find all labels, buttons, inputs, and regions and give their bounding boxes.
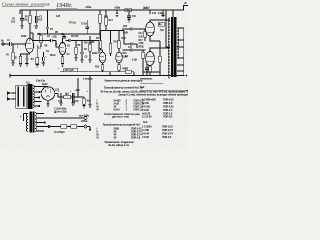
ground — [74, 58, 77, 61]
svg-text:7-8 23: 7-8 23 — [142, 108, 149, 112]
C7 label — [81, 24, 88, 26]
input label — [1, 41, 5, 43]
label Др1 — [143, 8, 148, 10]
svg-text:6Н9С: 6Н9С — [21, 36, 27, 38]
right table tail — [140, 78, 153, 81]
transformer Tr3 primary — [168, 18, 170, 78]
resistor R9 — [89, 36, 91, 44]
svg-text:7-8 30: 7-8 30 — [142, 135, 149, 139]
svg-text:ПЭЛ-0,31: ПЭЛ-0,31 — [163, 97, 174, 101]
filament label — [36, 81, 46, 83]
table heading — [105, 78, 143, 82]
wire C4 to V2 grid — [52, 41, 59, 48]
node +250 label — [85, 7, 92, 9]
wire primary top tap — [172, 10, 174, 17]
wire sec tap d — [36, 126, 58, 128]
V3 type label — [92, 53, 98, 55]
svg-text:Трансформатор выходной №3: Трансформатор выходной №3 — [103, 122, 141, 126]
splitter output labels — [123, 26, 128, 59]
svg-text:С6 0,05: С6 0,05 — [71, 36, 79, 38]
right table rows block2 — [142, 125, 173, 140]
table rows block1 — [97, 99, 145, 119]
resistor R15 — [101, 65, 104, 71]
wire V5 plate — [150, 20, 170, 22]
svg-text:С 20,0×450в: С 20,0×450в — [54, 107, 67, 110]
choke box Др2 — [158, 22, 164, 26]
resistor R13 — [118, 41, 121, 49]
ground — [80, 60, 83, 63]
ground bus — [10, 75, 183, 77]
svg-text:(зазор 0,1 мм), обмотки внавал: (зазор 0,1 мм), обмотки внавал, выводы г… — [119, 93, 189, 97]
table subheading2 — [103, 122, 141, 126]
svg-text:ПЭЛ-0,5: ПЭЛ-0,5 — [163, 115, 173, 119]
terminal — [84, 117, 87, 120]
capacitor C14 — [145, 64, 149, 76]
wire V6 cathode — [149, 65, 151, 68]
capacitor C9 — [20, 10, 24, 26]
node screen rail junction — [99, 33, 100, 34]
resistor R8 — [75, 41, 77, 48]
svg-text:5-6 191: 5-6 191 — [142, 104, 151, 108]
C1 label — [7, 40, 11, 42]
resistor R17 — [142, 50, 144, 52]
output label — [79, 115, 89, 123]
wire sec tap e — [36, 130, 44, 132]
resistor R20 — [71, 125, 77, 128]
mid misc labels — [38, 32, 92, 70]
power transformer label — [26, 83, 31, 85]
resistor R2 — [19, 56, 22, 63]
V1 type label — [21, 36, 27, 38]
ground — [42, 63, 45, 66]
mains plug — [11, 93, 16, 99]
svg-text:С7 8,0: С7 8,0 — [81, 24, 88, 26]
tube V2 — [59, 42, 66, 54]
svg-text:IV: IV — [97, 135, 100, 139]
transformer Tr3 core — [171, 17, 173, 77]
resistor R4 — [36, 45, 38, 57]
C3 plus label — [45, 57, 47, 59]
svg-text:к анодам: к анодам — [83, 78, 93, 80]
choke Др3 — [64, 95, 71, 98]
anode label — [83, 78, 93, 80]
svg-text:0,1М: 0,1М — [132, 60, 137, 62]
R16 label — [122, 69, 127, 71]
table note line2 — [119, 93, 198, 97]
resistor R11 — [99, 41, 102, 49]
wire secondary right drop — [183, 28, 185, 76]
svg-text:менников.: менников. — [140, 78, 153, 81]
wire tap 2 — [34, 91, 39, 93]
svg-text:6Н9С: 6Н9С — [92, 53, 98, 55]
tube V4 — [116, 52, 123, 63]
capacitor C2 — [25, 54, 28, 64]
svg-text:5-6 44: 5-6 44 — [142, 132, 149, 136]
cap id labels — [58, 101, 79, 103]
svg-text:0,5М: 0,5М — [139, 43, 144, 45]
svg-text:Трансформатор силовой №1 Тр: Трансформатор силовой №1 Тр — [104, 86, 143, 90]
R4 label — [31, 58, 35, 61]
ground — [127, 20, 130, 23]
tube V5 — [146, 22, 155, 36]
ground — [35, 26, 38, 29]
right table no3 — [143, 120, 148, 124]
svg-text:ПЭЛ-0,5: ПЭЛ-0,5 — [162, 135, 172, 139]
capacitor C19 — [89, 76, 91, 106]
capacitor C18 — [72, 93, 74, 103]
bus start tick — [9, 74, 11, 78]
wire bus drop — [109, 72, 111, 76]
wire V1 cathode — [21, 53, 30, 56]
right table rule1 — [140, 82, 163, 84]
svg-text:Схема лампов. усилителя: Схема лампов. усилителя — [2, 2, 50, 7]
wire V4 cathode — [118, 63, 120, 65]
wire choke out — [71, 78, 85, 97]
tube V1 — [26, 38, 34, 53]
svg-text:+250в: +250в — [85, 7, 92, 9]
wire to terminal — [58, 126, 84, 128]
table subheading — [104, 86, 143, 90]
wire V2 plate — [62, 38, 64, 44]
svg-text:R7 51к: R7 51к — [69, 23, 77, 25]
svg-text:3-4 55: 3-4 55 — [142, 101, 149, 105]
svg-text:ПЭЛ-1,0: ПЭЛ-1,0 — [163, 108, 173, 112]
jack arrow — [48, 125, 52, 129]
ground — [61, 64, 64, 67]
wire sec tap b — [36, 117, 84, 119]
table footnote — [105, 140, 135, 144]
ground — [46, 104, 49, 107]
resistor R14 — [105, 10, 107, 17]
R1 label — [6, 55, 10, 57]
resistor R22 — [83, 98, 86, 104]
wire secondary tap — [177, 40, 184, 71]
wire B+ drop — [166, 10, 170, 47]
C4 label — [47, 35, 51, 38]
C5 label — [61, 34, 65, 36]
resistor R18 — [149, 66, 152, 72]
wire C6 to V3 grid — [71, 41, 99, 54]
wire V4 plate coupling — [122, 49, 131, 51]
svg-text:АТС-0,25: АТС-0,25 — [65, 69, 75, 72]
wire secondary bottom — [177, 57, 184, 59]
wire V5 cathode — [150, 36, 160, 76]
wire cathode link — [143, 71, 160, 73]
splitter labels — [95, 17, 133, 69]
svg-text:вых 500м: вых 500м — [79, 115, 89, 117]
ground — [11, 63, 14, 66]
ground — [88, 105, 91, 108]
right table rule2 — [140, 89, 188, 91]
resistor R12 — [109, 43, 112, 53]
wire V6 bottom — [47, 100, 49, 104]
capacitor C5 — [62, 34, 66, 38]
speaker label — [54, 132, 65, 134]
screen rail — [37, 33, 100, 35]
svg-text:ПЭЛ 0,8: ПЭЛ 0,8 — [131, 135, 141, 139]
capacitor C3 — [43, 52, 45, 63]
ground — [82, 106, 85, 109]
R3 value label — [24, 17, 28, 22]
terminal — [84, 125, 87, 128]
svg-text:ПЭЛ-0,74: ПЭЛ-0,74 — [162, 132, 173, 136]
svg-text:11-12 30: 11-12 30 — [142, 115, 152, 119]
transformer Tr2 core — [30, 112, 32, 133]
svg-text:6,3в 6,3в: 6,3в 6,3в — [36, 81, 46, 83]
svg-text:ПЭЛ-0,74: ПЭЛ-0,74 — [162, 128, 173, 132]
transformer Tr2 primary — [26, 114, 27, 132]
capacitor C17 — [60, 93, 62, 103]
svg-text:ПЭЛ-0,8: ПЭЛ-0,8 — [163, 101, 173, 105]
V6 type label — [42, 83, 48, 86]
ground — [19, 64, 22, 67]
ground — [36, 65, 39, 68]
svg-text:№3: №3 — [143, 120, 148, 124]
svg-text:+285в: +285в — [114, 8, 121, 10]
title script — [2, 2, 50, 7]
rectifier tube V6 — [41, 87, 55, 101]
tube V3 — [99, 52, 106, 63]
Tr2 terminal label — [20, 117, 22, 119]
table rows block2 — [97, 126, 143, 139]
lower bus wire — [60, 71, 125, 73]
svg-text:Др 5гн 0,15а: Др 5гн 0,15а — [54, 111, 67, 113]
capacitor C20 — [115, 10, 118, 17]
svg-text:1-2 3250: 1-2 3250 — [142, 125, 152, 129]
wire V5 grid — [122, 27, 146, 30]
wire V6 cathode out — [55, 94, 64, 97]
svg-text:0,5М: 0,5М — [123, 33, 128, 35]
svg-text:R6 2к: R6 2к — [50, 55, 56, 57]
svg-text:Гр 0,5ГД-9: Гр 0,5ГД-9 — [54, 132, 65, 134]
svg-text:Намоточные данные трансфор: Намоточные данные трансфор — [105, 78, 143, 82]
wire tap 1 — [34, 87, 48, 89]
svg-text:+Б: +Б — [184, 3, 187, 5]
transformer Tr1 core — [28, 84, 30, 109]
capacitor C2 bypass — [35, 10, 37, 26]
wire tap 4 — [34, 101, 42, 103]
tube V6 — [146, 52, 155, 66]
svg-text:Ш-19, набор 2 см: Ш-19, набор 2 см — [109, 143, 129, 147]
wire V2 cathode — [62, 54, 64, 56]
wire rail feeder — [46, 10, 49, 34]
capacitor C4 — [51, 39, 53, 42]
svg-text:ПЭЛ-0,31: ПЭЛ-0,31 — [163, 104, 174, 108]
node +285 label — [114, 8, 121, 10]
wire stub down — [87, 127, 90, 131]
bus end terminals — [183, 75, 185, 77]
svg-text:0,5М: 0,5М — [123, 56, 128, 58]
ground — [25, 64, 28, 67]
capacitor C11 — [124, 31, 137, 49]
R7 diagonal label — [69, 23, 77, 25]
capacitor C1 — [10, 42, 12, 46]
capacitor C7 — [86, 20, 89, 34]
R2 label — [14, 58, 18, 60]
svg-text:2000м: 2000м — [81, 121, 88, 123]
svg-text:6,5×2: 6,5×2 — [114, 108, 121, 112]
misc value labels — [17, 36, 95, 51]
wire V3 cathode — [102, 63, 104, 65]
capacitor C6 — [69, 39, 71, 42]
svg-text:R9 0,1М: R9 0,1М — [84, 43, 92, 45]
transformer Tr1 secondary — [33, 86, 34, 108]
node rail tap — [149, 10, 151, 14]
ground — [72, 103, 75, 106]
output labels column — [139, 33, 145, 49]
resistor R5 — [40, 36, 43, 43]
ground — [59, 103, 62, 106]
R5 label — [38, 34, 42, 36]
wire secondary top — [177, 27, 184, 29]
right table rows block1 — [142, 97, 174, 118]
resistor R6 — [61, 57, 64, 64]
resistor R21 — [144, 29, 146, 31]
resistor R23 — [125, 70, 131, 73]
filter labels — [54, 107, 67, 113]
svg-text:1-2 650+650: 1-2 650+650 — [142, 97, 156, 101]
input terminal — [2, 43, 4, 45]
resistor R1 — [12, 44, 14, 52]
transformer Tr3 secondary — [177, 28, 179, 58]
year label — [56, 2, 73, 9]
filter misc labels — [55, 90, 91, 103]
bus label box — [64, 68, 78, 72]
wire Tr2 primary lead — [24, 114, 28, 121]
svg-text:№2: №2 — [140, 85, 145, 89]
svg-text:6П3С: 6П3С — [139, 47, 145, 49]
C9 value label — [11, 19, 16, 24]
capacitor C16 — [161, 10, 164, 17]
bus junction dots — [102, 75, 161, 76]
svg-text:ПЭЛ-0,12: ПЭЛ-0,12 — [162, 125, 173, 129]
capacitor C10 — [127, 11, 131, 19]
right table no2 — [140, 85, 145, 89]
capacitor C8 — [80, 41, 84, 61]
svg-text:3-4 88: 3-4 88 — [142, 128, 149, 132]
wire input to C1 — [4, 43, 9, 45]
svg-text:IV: IV — [97, 108, 100, 112]
wire C1 to grid — [11, 43, 26, 45]
resistor R3 — [29, 10, 31, 15]
transformer Tr1 primary box — [16, 85, 27, 108]
rail start tick — [19, 10, 21, 14]
wire tap 3 — [34, 97, 39, 99]
svg-text:для пост. тока: для пост. тока — [112, 115, 129, 118]
node grid junction — [12, 43, 13, 44]
fuse Пр1 — [125, 9, 128, 12]
resistor R16 — [118, 65, 121, 71]
wire sec tap c — [36, 122, 44, 124]
wire splitter feed — [100, 30, 124, 32]
resistor R10 — [99, 10, 101, 14]
ground — [88, 60, 91, 63]
resistor R19 — [61, 125, 67, 128]
transformer Tr2 secondary — [35, 113, 37, 132]
wire V6 plate — [150, 48, 170, 52]
output misc labels — [146, 7, 165, 32]
corner label — [184, 3, 187, 5]
ground — [20, 26, 23, 29]
wire V2 plate to splitter — [66, 40, 69, 42]
wire sec tap a — [36, 113, 44, 115]
table note line — [101, 90, 192, 94]
capacitor C12 — [131, 48, 133, 51]
wire V1 plate to coupling — [30, 33, 51, 41]
top B+ rail — [20, 6, 188, 11]
wire C12 to V5 grid — [133, 49, 146, 51]
svg-text:5Ц4С: 5Ц4С — [42, 83, 48, 86]
wire tap 5 — [34, 105, 39, 107]
